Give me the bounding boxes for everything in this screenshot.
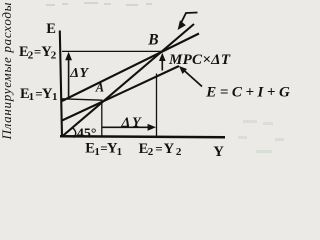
MPC x delta-T arrow xyxy=(159,53,166,71)
45 degree angle arc xyxy=(72,128,76,138)
y-axis (E axis) xyxy=(60,31,62,138)
svg-text:A: A xyxy=(95,81,104,95)
delta-Y horizontal arrow xyxy=(102,124,156,131)
svg-text:E1=Y1: E1=Y1 xyxy=(85,141,122,158)
x-axis (Y axis) xyxy=(60,136,225,137)
svg-text:E2=Y2: E2=Y2 xyxy=(19,44,57,61)
svg-text:E1=Y1: E1=Y1 xyxy=(20,86,58,103)
hook arrow pointing to shifted line xyxy=(178,13,198,31)
svg-text:ΔY: ΔY xyxy=(69,66,89,81)
delta-Y vertical arrow xyxy=(65,52,72,98)
svg-text:MPC×ΔT: MPC×ΔT xyxy=(168,52,231,68)
Y2 vertical dashed line xyxy=(156,74,158,138)
E1 horizontal reference line xyxy=(62,99,103,100)
expenditure line E=C+I+G (lower) xyxy=(62,66,179,121)
svg-text:B: B xyxy=(147,31,158,48)
pointer arrow from E=C+I+G label to lower line xyxy=(179,66,202,87)
faint bleed-through noise top xyxy=(46,2,152,6)
svg-text:Планируемые расходы: Планируемые расходы xyxy=(0,2,14,140)
svg-text:ΔY: ΔY xyxy=(121,115,143,130)
svg-text:Y: Y xyxy=(213,144,224,160)
Y1 vertical dashed line xyxy=(101,101,103,138)
45-degree line xyxy=(62,24,194,137)
E2 horizontal reference line xyxy=(62,50,163,52)
faint bleed-through noise right xyxy=(238,120,284,153)
shifted expenditure line (upper) xyxy=(62,34,199,102)
svg-text:45°: 45° xyxy=(77,126,97,141)
svg-text:E = C + I + G: E = C + I + G xyxy=(205,85,290,101)
svg-text:E: E xyxy=(46,21,56,37)
